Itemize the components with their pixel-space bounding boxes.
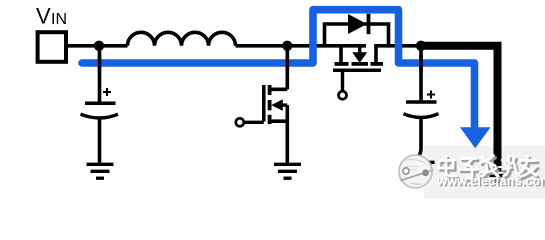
- ground (input cap): [87, 164, 114, 178]
- ground (Q1 source): [274, 164, 301, 178]
- ground (output cap): [408, 162, 435, 174]
- capacitor C1 (input, polarized): [81, 88, 119, 163]
- capacitor C2 (output, polarized): [404, 91, 439, 161]
- wire VOUT down to capacitor C2: [419, 46, 423, 101]
- node VIN label: [36, 4, 67, 29]
- body arrow down: [352, 52, 367, 63]
- wire overdraw (cap/drain wires cross over blue): [100, 55, 422, 71]
- source wire down: [285, 121, 289, 162]
- channel segments: [268, 85, 272, 95]
- diode D1: [348, 14, 367, 34]
- wire inductor to switch node: [236, 44, 367, 48]
- input terminal box VIN: [38, 32, 66, 62]
- node VOUT junction dot: [416, 41, 426, 51]
- transistor Q1 (low-side NMOS): [244, 46, 287, 163]
- wire VIN box to inductor (main input wire): [66, 44, 128, 48]
- ground (load return): [486, 170, 510, 181]
- inductor L1: [128, 32, 236, 46]
- output thick line to load/ground: [421, 46, 498, 166]
- gate plate: [262, 85, 266, 122]
- drain stub: [270, 88, 288, 92]
- watermark veil: [424, 146, 545, 198]
- watermark text dianzifashaoyou (stylised strokes): [441, 158, 538, 181]
- gate terminal circle Q1: [236, 118, 244, 126]
- left stub: [339, 46, 343, 64]
- wire node A down to capacitor C1: [98, 46, 102, 102]
- node A junction dot (input cap tap): [94, 41, 104, 51]
- svg-text:IN: IN: [51, 11, 67, 28]
- gate terminal circle Q2: [339, 91, 347, 99]
- svg-text:www.elecfans.com: www.elecfans.com: [436, 174, 545, 188]
- node SW junction dot (low-side FET drain): [282, 41, 292, 51]
- diode D1 branch (body diode over high-side FET): [325, 14, 389, 46]
- transistor Q2 (high-side FET, rotated): [333, 46, 421, 91]
- body arrow into channel: [271, 99, 283, 111]
- drain wire down: [285, 46, 289, 90]
- watermark logo (elecfans disc): [399, 155, 434, 188]
- gate wire: [244, 121, 264, 124]
- svg-text:V: V: [36, 4, 51, 29]
- right stub, wire resumes to output: [376, 46, 421, 64]
- current path arrowhead: [460, 127, 491, 148]
- gate plate: [333, 69, 381, 73]
- source connector: [285, 105, 289, 121]
- gate wire: [341, 70, 344, 90]
- current path (blue): [82, 10, 475, 129]
- channel segments: [335, 62, 349, 66]
